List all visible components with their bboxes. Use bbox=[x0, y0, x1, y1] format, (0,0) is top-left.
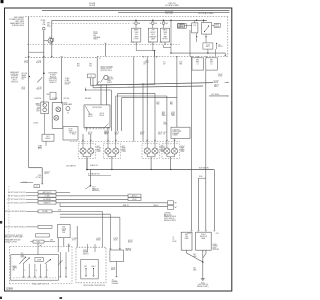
svg-text:Z111: Z111 bbox=[193, 268, 196, 270]
svg-text:BK/YL: BK/YL bbox=[72, 133, 76, 135]
svg-text:4-WHEEL: 4-WHEEL bbox=[164, 212, 171, 214]
svg-text:L3 18: L3 18 bbox=[38, 87, 42, 89]
svg-text:BK/RD: BK/RD bbox=[111, 269, 115, 271]
svg-text:RIGHT: RIGHT bbox=[180, 146, 185, 148]
svg-text:LT GRN: LT GRN bbox=[45, 195, 50, 197]
svg-text:GREEN: GREEN bbox=[213, 246, 218, 248]
svg-text:L-TT WT 18LB-C2 207 FD: L-TT WT 18LB-C2 207 FD bbox=[7, 203, 26, 205]
svg-text:S/T R-2: S/T R-2 bbox=[22, 182, 27, 184]
svg-text:TURN: TURN bbox=[180, 151, 184, 153]
svg-text:ONLY): ONLY) bbox=[12, 79, 17, 81]
svg-text:L6-2: L6-2 bbox=[163, 132, 166, 134]
svg-text:TURN: TURN bbox=[96, 151, 100, 153]
svg-text:BRN: BRN bbox=[196, 61, 199, 63]
svg-text:B+: B+ bbox=[133, 23, 135, 25]
svg-text:(EXPORT ONLY): (EXPORT ONLY) bbox=[101, 70, 113, 72]
svg-text:HOT AT ALL TIMES: HOT AT ALL TIMES bbox=[199, 12, 215, 15]
svg-text:COMP: COMP bbox=[65, 80, 69, 82]
svg-text:DOME: DOME bbox=[37, 260, 41, 262]
svg-text:SYSTEM: SYSTEM bbox=[11, 76, 18, 78]
svg-text:BK/RD: BK/RD bbox=[128, 242, 132, 244]
svg-text:LEFT: LEFT bbox=[151, 30, 155, 32]
svg-text:ONLY): ONLY) bbox=[93, 39, 98, 41]
svg-text:W/ LOW: W/ LOW bbox=[22, 73, 28, 75]
svg-text:L44: L44 bbox=[160, 42, 162, 44]
svg-text:BK/RD: BK/RD bbox=[96, 240, 100, 242]
svg-text:MODULE: MODULE bbox=[11, 81, 18, 83]
svg-text:4T/6 40M: 4T/6 40M bbox=[89, 3, 96, 5]
svg-text:HOT IN RUN: HOT IN RUN bbox=[211, 94, 219, 96]
svg-text:C2: C2 bbox=[36, 186, 38, 188]
svg-text:WT/RD FD: WT/RD FD bbox=[44, 202, 51, 204]
svg-text:VT/W: VT/W bbox=[24, 62, 28, 64]
svg-text:LEFT: LEFT bbox=[84, 266, 87, 268]
svg-text:B149 18BK/TN: B149 18BK/TN bbox=[199, 168, 209, 170]
svg-text:TURN SIG /: TURN SIG / bbox=[172, 129, 180, 131]
svg-text:TURN: TURN bbox=[83, 250, 87, 252]
svg-text:18BK: 18BK bbox=[163, 124, 167, 126]
svg-text:L3 18: L3 18 bbox=[37, 61, 41, 63]
svg-text:L51: L51 bbox=[163, 62, 166, 64]
svg-text:BK/YL: BK/YL bbox=[115, 133, 119, 135]
svg-text:18 BK: 18 BK bbox=[173, 241, 177, 243]
svg-text:LIGHT: LIGHT bbox=[213, 244, 217, 246]
svg-text:HB4: HB4 bbox=[170, 104, 173, 106]
svg-text:HDLP: HDLP bbox=[215, 24, 219, 26]
svg-text:TURN: TURN bbox=[122, 151, 126, 153]
svg-text:L50: L50 bbox=[143, 62, 146, 64]
svg-text:GRY: GRY bbox=[210, 61, 213, 63]
svg-text:4W-LP: 4W-LP bbox=[132, 199, 136, 201]
svg-text:18 BK: 18 BK bbox=[114, 240, 118, 242]
svg-text:Z255: Z255 bbox=[38, 175, 41, 177]
svg-text:MDT CONTROL (EXPORT): MDT CONTROL (EXPORT) bbox=[5, 235, 23, 237]
svg-text:LT FRT: LT FRT bbox=[134, 39, 139, 41]
svg-text:G301: G301 bbox=[201, 282, 205, 284]
svg-text:8-4 WT 18LB-C2 208 FD: 8-4 WT 18LB-C2 208 FD bbox=[8, 196, 26, 198]
svg-text:LEFT: LEFT bbox=[36, 110, 40, 112]
svg-text:D6: D6 bbox=[47, 24, 49, 26]
svg-text:WT/TN: WT/TN bbox=[114, 238, 118, 240]
svg-text:MULTI-FUNCTION SWITCH: MULTI-FUNCTION SWITCH bbox=[84, 285, 106, 287]
svg-text:HB3: HB3 bbox=[179, 63, 182, 65]
svg-text:C1: C1 bbox=[173, 237, 175, 239]
svg-text:BK/YL: BK/YL bbox=[158, 133, 162, 135]
svg-text:MT2: MT2 bbox=[179, 62, 182, 64]
svg-text:H: H bbox=[36, 270, 37, 272]
svg-text:FRONT: FRONT bbox=[150, 32, 155, 34]
svg-text:FUSES 9-12: FUSES 9-12 bbox=[49, 80, 57, 82]
svg-text:MET: MET bbox=[210, 59, 213, 61]
svg-text:BR/YL: BR/YL bbox=[214, 86, 218, 88]
svg-text:C2: C2 bbox=[90, 76, 92, 78]
svg-text:BK/YL: BK/YL bbox=[140, 133, 144, 135]
svg-text:MT2: MT2 bbox=[47, 23, 50, 25]
svg-text:BK/GY: BK/GY bbox=[88, 116, 92, 118]
svg-text:TURN: TURN bbox=[36, 105, 40, 107]
svg-text:ENGINE COMPT): ENGINE COMPT) bbox=[164, 220, 177, 222]
svg-text:C2: C2 bbox=[173, 239, 175, 241]
svg-text:SWITCH OUTPUT: SWITCH OUTPUT bbox=[5, 241, 17, 243]
svg-text:(LEFT SIDE OF: (LEFT SIDE OF bbox=[198, 284, 208, 286]
svg-text:18BK: 18BK bbox=[104, 133, 107, 135]
svg-text:C2: C2 bbox=[211, 63, 213, 65]
svg-text:D5 18: D5 18 bbox=[93, 31, 97, 33]
svg-text:DK GRN/RD: DK GRN/RD bbox=[43, 199, 51, 201]
svg-text:K12: K12 bbox=[22, 79, 25, 81]
svg-text:18BK: 18BK bbox=[193, 256, 196, 258]
svg-text:SIG: SIG bbox=[37, 107, 39, 109]
svg-text:MT2: MT2 bbox=[89, 64, 92, 66]
svg-text:RIGHT: RIGHT bbox=[92, 266, 96, 268]
svg-text:S317: S317 bbox=[46, 136, 50, 138]
svg-text:PWDL: PWDL bbox=[37, 241, 41, 243]
svg-text:(S/T RL): (S/T RL) bbox=[36, 177, 42, 179]
svg-text:Z111: Z111 bbox=[193, 254, 196, 256]
svg-text:JTR/S 12V: JTR/S 12V bbox=[168, 3, 175, 5]
svg-text:B+: B+ bbox=[160, 23, 162, 25]
svg-text:18BK: 18BK bbox=[193, 269, 196, 271]
svg-text:SIDE: SIDE bbox=[151, 34, 155, 36]
svg-text:MET: MET bbox=[196, 59, 199, 61]
svg-text:LINE: LINE bbox=[58, 210, 61, 212]
svg-text:18 BK: 18 BK bbox=[213, 247, 217, 249]
svg-text:SWITCH: SWITCH bbox=[83, 253, 89, 255]
svg-text:INST: INST bbox=[62, 226, 65, 228]
svg-text:BK/YL: BK/YL bbox=[206, 46, 210, 48]
svg-text:LEVELING: LEVELING bbox=[11, 74, 20, 76]
svg-text:L4 18VT/W: L4 18VT/W bbox=[34, 98, 42, 100]
svg-text:L7 18: L7 18 bbox=[38, 146, 42, 148]
svg-text:BK/TN: BK/TN bbox=[45, 173, 49, 175]
svg-text:LEFT: LEFT bbox=[96, 146, 100, 148]
svg-text:M2 18YL: M2 18YL bbox=[64, 98, 70, 100]
svg-text:DOME LIGHT: DOME LIGHT bbox=[172, 131, 181, 133]
svg-text:STOP: STOP bbox=[69, 129, 73, 131]
svg-text:LEFT: LEFT bbox=[185, 234, 189, 236]
svg-text:F30: F30 bbox=[77, 65, 80, 67]
svg-text:LOW/: LOW/ bbox=[171, 112, 175, 114]
svg-text:C101: C101 bbox=[216, 233, 219, 235]
svg-text:B149: B149 bbox=[199, 176, 202, 178]
svg-text:F32: F32 bbox=[89, 65, 92, 67]
svg-text:TURN: TURN bbox=[163, 32, 167, 34]
svg-text:18?: 18? bbox=[143, 63, 146, 65]
svg-text:MT2: MT2 bbox=[156, 102, 159, 104]
svg-text:L6-1: L6-1 bbox=[163, 122, 166, 124]
svg-text:HB2: HB2 bbox=[156, 104, 159, 106]
svg-text:VT/W: VT/W bbox=[21, 89, 25, 91]
svg-text:(DIESEL ENG): (DIESEL ENG) bbox=[12, 25, 24, 27]
svg-text:L4 18VT: L4 18VT bbox=[33, 123, 39, 125]
svg-text:RIGHT: RIGHT bbox=[160, 146, 165, 148]
svg-text:Z255 18BK/TN: Z255 18BK/TN bbox=[66, 165, 76, 167]
svg-text:LEFT: LEFT bbox=[64, 102, 68, 104]
svg-text:M3 18BK: M3 18BK bbox=[85, 98, 91, 100]
svg-text:(LEFT SIDE): (LEFT SIDE) bbox=[49, 78, 58, 80]
svg-text:(LEFT SIDE OF: (LEFT SIDE OF bbox=[164, 218, 175, 220]
svg-text:18?: 18? bbox=[163, 63, 166, 65]
svg-text:VT/RD: VT/RD bbox=[218, 76, 222, 78]
svg-text:B+: B+ bbox=[149, 23, 151, 25]
svg-text:HD LP LVL SW FD 18LB-C2: HD LP LVL SW FD 18LB-C2 bbox=[5, 227, 25, 229]
svg-text:COMBO: COMBO bbox=[172, 135, 178, 137]
svg-text:FUSE 9: FUSE 9 bbox=[107, 82, 112, 84]
svg-text:MT2: MT2 bbox=[170, 102, 173, 104]
svg-text:4TT WT 18LB-C2 207 FD: 4TT WT 18LB-C2 207 FD bbox=[7, 199, 26, 201]
svg-text:52969: 52969 bbox=[6, 288, 13, 291]
svg-text:P: P bbox=[25, 270, 26, 272]
svg-text:L62 18: L62 18 bbox=[128, 240, 133, 242]
svg-text:L43: L43 bbox=[149, 42, 151, 44]
svg-text:BK/YL: BK/YL bbox=[88, 133, 92, 135]
svg-text:LIC: LIC bbox=[67, 113, 69, 115]
svg-text:BK/YL: BK/YL bbox=[38, 147, 42, 149]
svg-text:M3 18: M3 18 bbox=[88, 114, 92, 116]
svg-text:L7 18: L7 18 bbox=[131, 42, 135, 44]
svg-text:RD/OR: RD/OR bbox=[214, 82, 218, 84]
svg-text:TURN: TURN bbox=[134, 32, 138, 34]
svg-text:GROUND: GROUND bbox=[213, 249, 219, 251]
svg-text:MT2: MT2 bbox=[77, 64, 80, 66]
svg-text:COIL: COIL bbox=[193, 25, 196, 27]
svg-text:DRL MODULE: DRL MODULE bbox=[92, 107, 101, 109]
svg-text:SWITCH: SWITCH bbox=[125, 250, 131, 252]
svg-text:LINE: LINE bbox=[50, 240, 53, 242]
svg-text:RD/OR: RD/OR bbox=[218, 46, 222, 48]
svg-text:DRV: DRV bbox=[62, 232, 65, 234]
svg-text:DIST CTR: DIST CTR bbox=[107, 79, 113, 81]
svg-text:(EXPORT: (EXPORT bbox=[11, 78, 18, 80]
svg-text:DIST (J/B): DIST (J/B) bbox=[166, 13, 173, 15]
svg-text:DRL: DRL bbox=[93, 35, 96, 37]
svg-text:CLUTCH: CLUTCH bbox=[65, 82, 71, 84]
svg-text:L4 18: L4 18 bbox=[21, 87, 25, 89]
svg-text:FRONT: FRONT bbox=[96, 148, 101, 150]
svg-text:L39 18: L39 18 bbox=[218, 74, 223, 76]
svg-text:DRL: DRL bbox=[46, 94, 49, 96]
svg-text:C1: C1 bbox=[197, 63, 199, 65]
svg-text:S317: S317 bbox=[92, 187, 96, 189]
svg-text:D: D bbox=[47, 270, 48, 272]
svg-text:18 VT: 18 VT bbox=[72, 240, 76, 242]
svg-text:DK GRN: DK GRN bbox=[89, 5, 95, 7]
svg-text:RIGHT: RIGHT bbox=[201, 234, 206, 236]
svg-text:BK/OR: BK/OR bbox=[100, 115, 104, 117]
svg-text:TO PWR: TO PWR bbox=[107, 77, 113, 79]
svg-text:ENGINE COMPT): ENGINE COMPT) bbox=[197, 286, 209, 288]
svg-text:L3 18RD: L3 18RD bbox=[52, 98, 58, 100]
svg-text:L62 18: L62 18 bbox=[96, 238, 100, 240]
svg-text:CLSTR: CLSTR bbox=[62, 228, 67, 230]
svg-text:L4 18: L4 18 bbox=[24, 61, 28, 63]
svg-text:C1: C1 bbox=[99, 58, 101, 60]
svg-text:LT GRN: LT GRN bbox=[72, 238, 77, 240]
svg-text:MODULE: MODULE bbox=[50, 76, 56, 78]
svg-text:DK GRN: DK GRN bbox=[42, 211, 47, 213]
svg-text:RT FRT: RT FRT bbox=[162, 39, 167, 41]
svg-text:LEFT: LEFT bbox=[122, 146, 126, 148]
svg-text:HIGH: HIGH bbox=[171, 114, 175, 116]
svg-text:18: 18 bbox=[163, 134, 165, 136]
svg-text:M4 18: M4 18 bbox=[100, 113, 104, 115]
svg-text:HEADLAMP SWITCH: HEADLAMP SWITCH bbox=[32, 283, 50, 286]
svg-text:2-4 WT 18LB-C2 207 FD: 2-4 WT 18LB-C2 207 FD bbox=[8, 192, 26, 194]
svg-text:POWER: POWER bbox=[50, 74, 55, 76]
